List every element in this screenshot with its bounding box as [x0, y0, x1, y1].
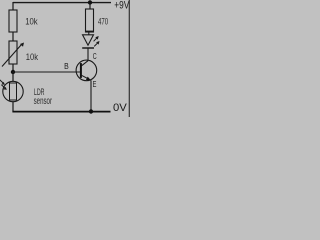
LED D1 triangle	[83, 35, 94, 45]
wire: top rail down to R1	[12, 2, 14, 10]
svg-text:0V: 0V	[113, 102, 127, 114]
svg-text:10k: 10k	[26, 52, 38, 63]
wire: base wire from node A to Q1 base	[13, 71, 80, 73]
LED light arrow 2	[94, 41, 99, 46]
resistor R1	[9, 10, 17, 32]
Q1 base bar	[80, 63, 82, 78]
wire: node A down to LDR	[12, 72, 14, 81]
wire: 0V rail (bottom)	[12, 111, 110, 113]
svg-text:+9V: +9V	[114, 0, 129, 11]
svg-text:sensor: sensor	[34, 96, 53, 107]
wire: junction down to R2	[89, 3, 91, 10]
wire: +9V supply rail (top)	[13, 2, 111, 4]
transistor Q1	[76, 60, 97, 81]
wire: Q1 emitter down to 0V rail	[90, 80, 92, 111]
variable resistor VR1 arrow	[2, 43, 24, 67]
Q1 emitter stroke	[82, 75, 89, 79]
node A junction dot	[11, 70, 15, 74]
LDR sensor body	[3, 81, 23, 101]
wire: R1 to VR1	[12, 32, 14, 41]
wire: LDR to 0V rail	[12, 102, 14, 112]
svg-text:B: B	[64, 61, 69, 71]
wire: R2 to LED anode	[88, 32, 90, 35]
svg-text:C: C	[93, 52, 97, 61]
resistor R2	[86, 9, 94, 32]
LED D1 cathode bar	[82, 47, 94, 49]
node: emitter-rail junction dot	[89, 109, 93, 113]
Q1 collector stroke	[82, 61, 89, 66]
node: supply junction dot above R2	[88, 0, 92, 4]
svg-text:E: E	[93, 80, 97, 89]
Q1 emitter arrowhead	[86, 77, 91, 81]
svg-text:470: 470	[98, 16, 108, 27]
svg-text:10k: 10k	[25, 16, 38, 27]
background	[0, 0, 130, 117]
wire: VR1 to node A	[12, 64, 14, 72]
right edge border line	[128, 0, 130, 117]
light arrow 1 into LDR	[0, 79, 5, 85]
variable resistor VR1 body	[9, 41, 17, 64]
Q1 body circle	[76, 60, 97, 81]
light arrow 2 into LDR	[2, 85, 7, 90]
wire: LED cathode to Q1 collector	[87, 48, 89, 60]
resistor R2 thick bottom edge	[86, 30, 94, 32]
LED light arrow 1	[94, 36, 99, 41]
